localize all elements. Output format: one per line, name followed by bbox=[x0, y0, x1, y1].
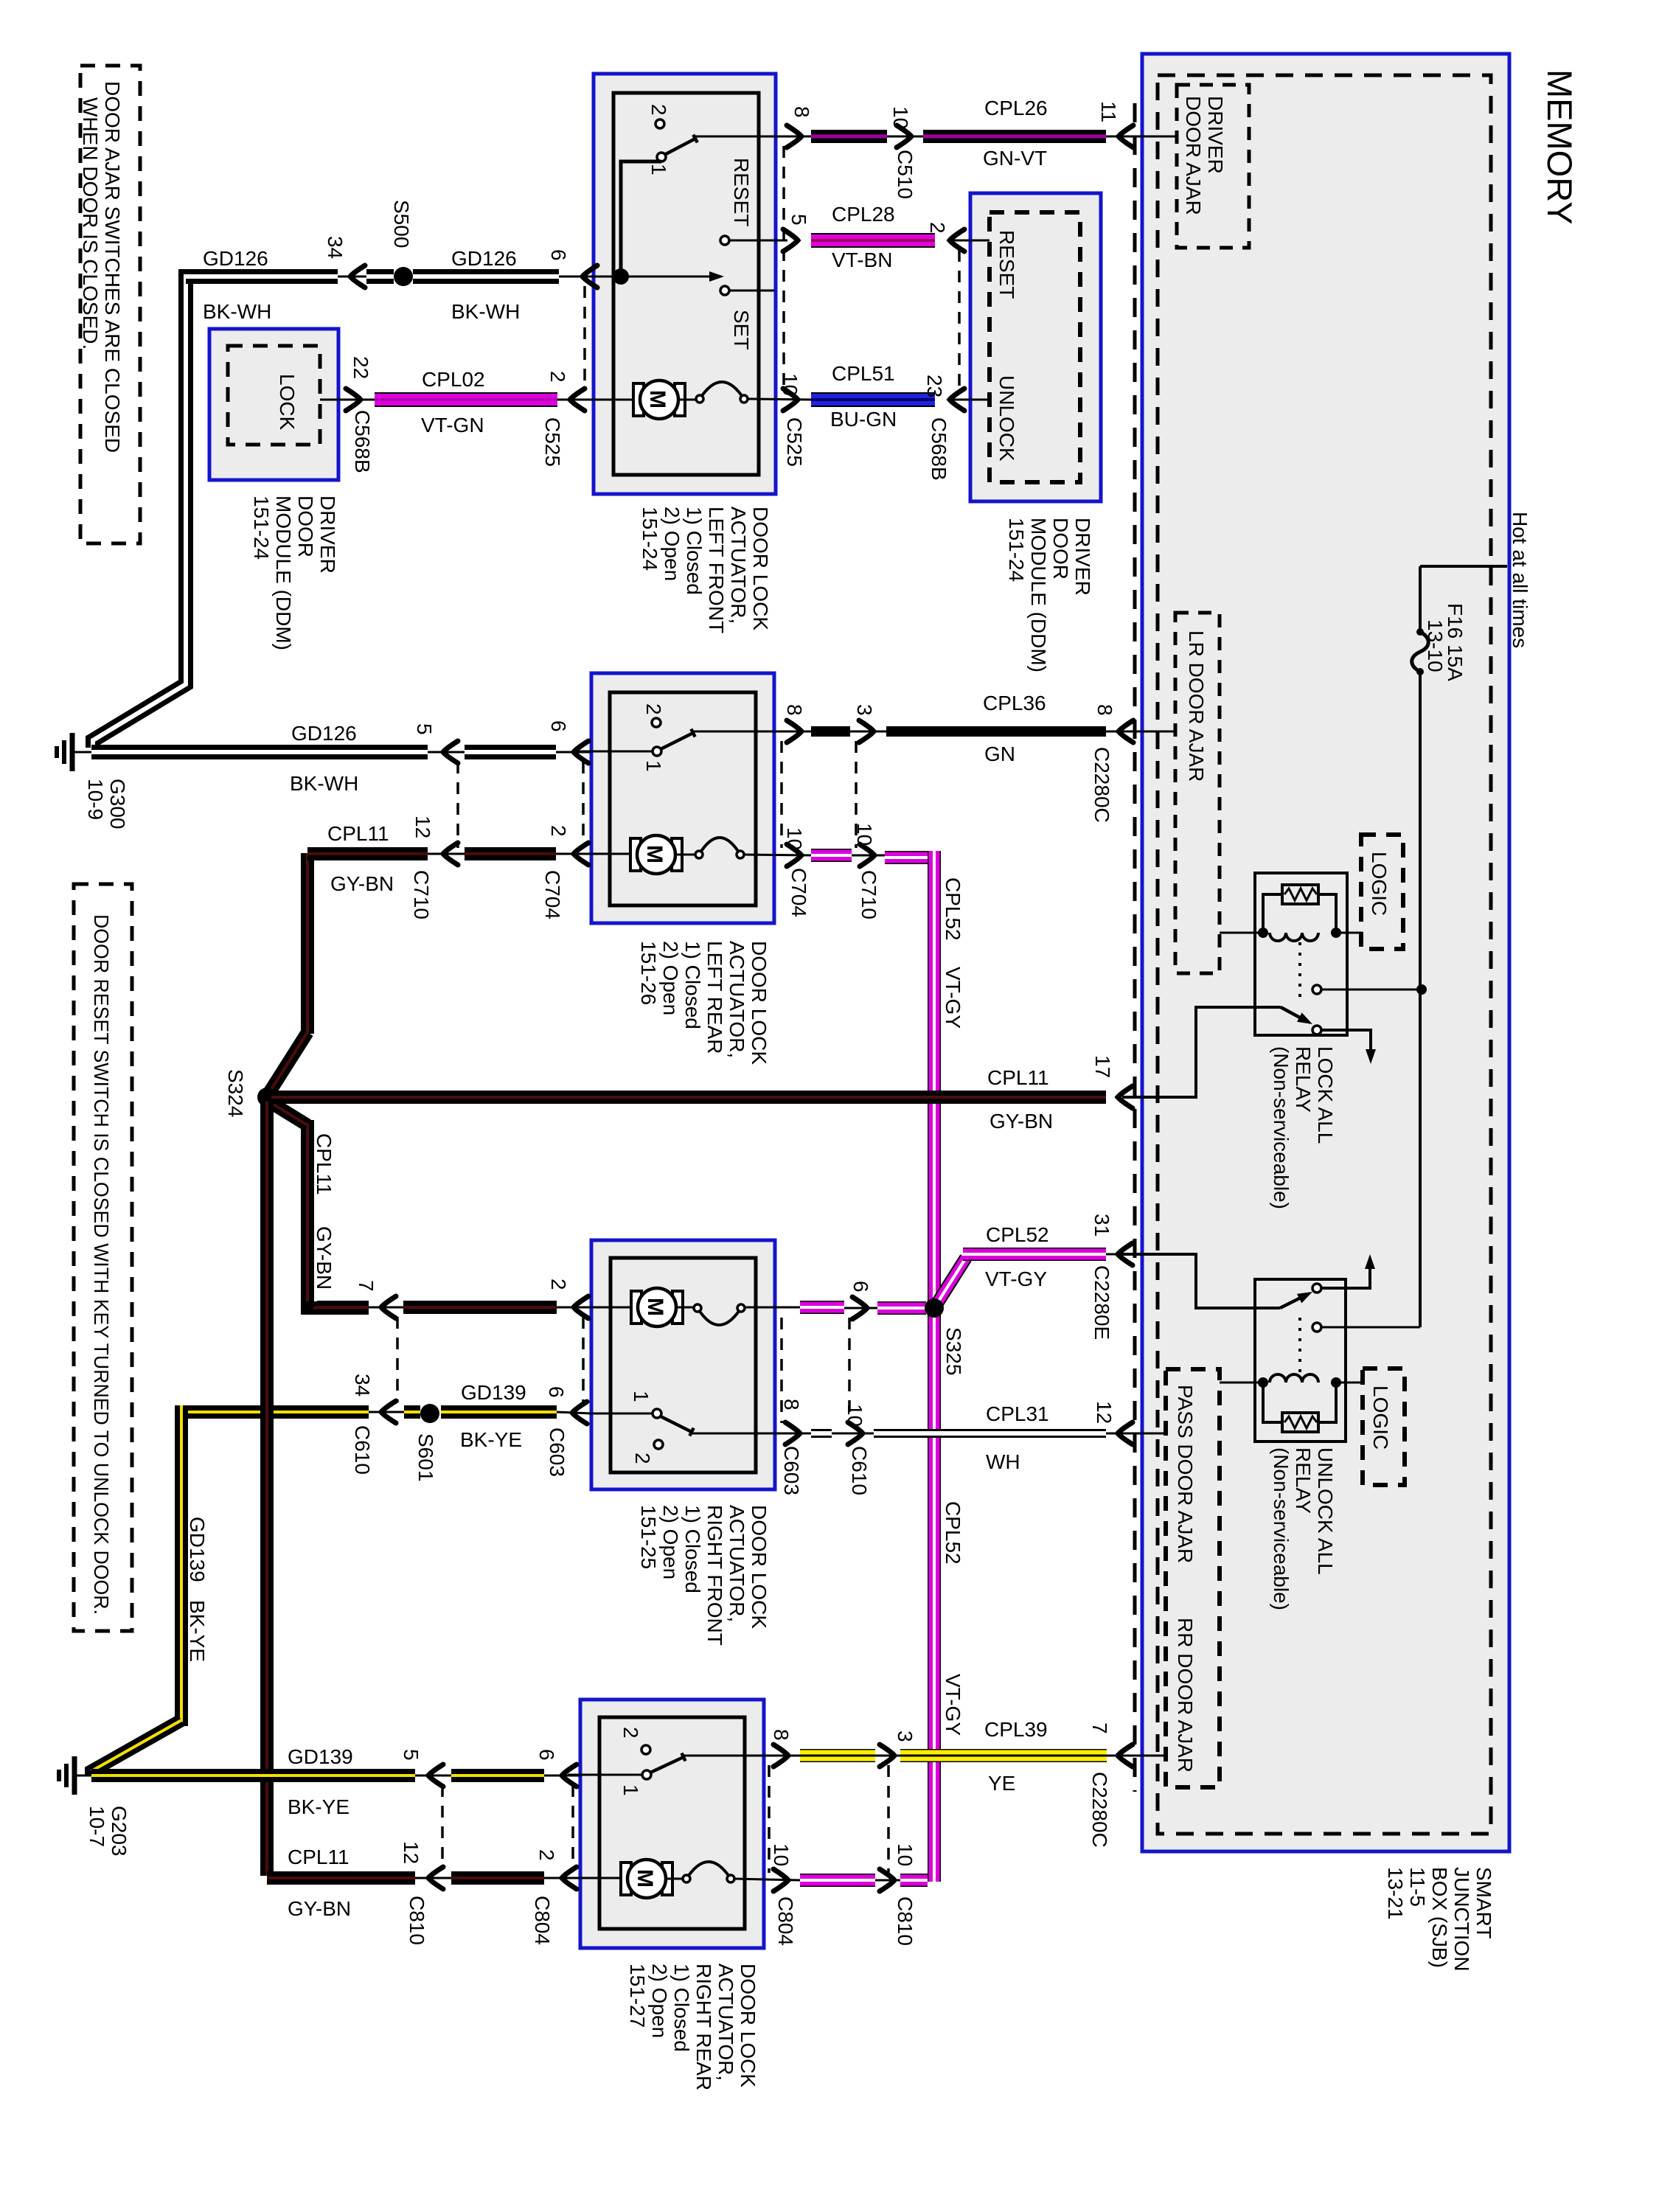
svg-text:2: 2 bbox=[547, 825, 570, 837]
actuator RF motor bbox=[631, 1291, 641, 1324]
svg-text:10: 10 bbox=[844, 1404, 866, 1427]
svg-text:GD126: GD126 bbox=[203, 247, 268, 270]
wire CPL52 VT-GY stub band row4 bbox=[800, 1874, 875, 1887]
connector C704 dashed row2 bbox=[582, 762, 585, 848]
svg-text:RIGHT FRONT: RIGHT FRONT bbox=[703, 1505, 726, 1646]
pin 6 arrow into actuator LF bbox=[559, 276, 594, 278]
svg-text:6: 6 bbox=[545, 1386, 568, 1398]
actuator RR switch contact 2 bbox=[641, 1745, 650, 1754]
relay UNLOCK ALL RELAY box bbox=[1255, 1279, 1346, 1441]
unlock relay NO contact and output hook bbox=[1312, 1284, 1321, 1293]
svg-text:151-25: 151-25 bbox=[637, 1505, 660, 1569]
pin 3 arrow (C710) bbox=[850, 731, 886, 733]
battery feed wire from SJB edge bbox=[1420, 565, 1507, 568]
svg-text:GD139: GD139 bbox=[186, 1517, 209, 1582]
svg-text:151-24: 151-24 bbox=[639, 507, 661, 571]
svg-text:CPL11: CPL11 bbox=[313, 1133, 335, 1195]
svg-text:CPL28: CPL28 bbox=[832, 203, 895, 226]
pin 2 arrow into actuator RR motor (C804) bbox=[544, 1877, 580, 1879]
SJB inner dashed boundary bbox=[1158, 75, 1491, 1834]
svg-text:RESET: RESET bbox=[730, 158, 753, 226]
pin 17 arrow into SJB (lock relay) bbox=[1118, 1086, 1133, 1108]
svg-text:10: 10 bbox=[779, 373, 801, 396]
svg-text:10-7: 10-7 bbox=[86, 1806, 108, 1847]
wire CPL11 GY-BN row2 with corner down bbox=[301, 853, 314, 1034]
svg-text:CPL52: CPL52 bbox=[942, 877, 964, 941]
node DRIVER DOOR AJAR (dashed box) bbox=[1177, 85, 1249, 248]
pin 10 arrow (C510) bbox=[887, 136, 923, 138]
wire GD139 diagonal to ground bbox=[91, 1720, 181, 1775]
ground G203 bbox=[72, 1756, 77, 1795]
wire pin 23 to DDM UNLOCK bbox=[953, 399, 990, 401]
svg-text:CPL26: CPL26 bbox=[984, 97, 1048, 119]
svg-text:BK-WH: BK-WH bbox=[451, 300, 520, 323]
actuator RR motor bbox=[621, 1863, 631, 1895]
svg-text:(Non-serviceable): (Non-serviceable) bbox=[1270, 1447, 1293, 1610]
lock relay actuation dotted link bbox=[1298, 942, 1301, 999]
svg-text:CPL11: CPL11 bbox=[288, 1846, 349, 1868]
actuator LF SET contact bbox=[720, 286, 729, 295]
pin 12 arrow (C810) bbox=[415, 1877, 451, 1879]
svg-text:DOOR LOCK: DOOR LOCK bbox=[748, 941, 771, 1065]
actuator LF switch output wire to pin 8 bbox=[695, 136, 811, 138]
wire GD139 BK-YE row3 from corner bbox=[181, 1405, 369, 1419]
wire lock relay coil to LOGIC bbox=[1340, 932, 1363, 934]
pin 8 arrow from actuator RR switch (C804) bbox=[773, 1745, 788, 1767]
wire CPL26 GN-VT main band bbox=[923, 130, 1106, 143]
actuator LF switch pivot contact 1 bbox=[657, 153, 666, 161]
node PASS DOOR AJAR / RR DOOR AJAR (dashed box) bbox=[1166, 1369, 1220, 1787]
svg-text:11-5: 11-5 bbox=[1406, 1867, 1429, 1907]
wire CPL52 VT-GY band to pin 31 bbox=[963, 1248, 1106, 1261]
svg-text:C525: C525 bbox=[541, 417, 564, 467]
relay LOCK ALL RELAY box bbox=[1255, 873, 1347, 1035]
svg-text:C710: C710 bbox=[858, 870, 880, 919]
wire CPL02 VT-GN band bbox=[375, 392, 557, 407]
svg-text:2) Open: 2) Open bbox=[648, 1964, 671, 2038]
connector C568B dashed bbox=[958, 250, 961, 391]
connector dashed between 3 and 10 (right side row2) bbox=[855, 741, 858, 848]
svg-text:RR DOOR AJAR: RR DOOR AJAR bbox=[1174, 1618, 1197, 1773]
wire RR arc to pin 10 (right) bbox=[734, 1879, 800, 1880]
unlock relay armature bbox=[1280, 1295, 1307, 1308]
svg-text:S325: S325 bbox=[942, 1327, 965, 1375]
wire CPL36 GN band bbox=[886, 726, 1106, 737]
door lock actuator right front box bbox=[591, 1240, 775, 1489]
wire GD126 BK-WH vertical from corner to G300 bbox=[93, 276, 335, 748]
pin 5 arrow (C810) bbox=[415, 1775, 451, 1777]
wire CPL31 WH stub bbox=[811, 1429, 832, 1438]
svg-text:2: 2 bbox=[647, 104, 670, 116]
svg-text:WH: WH bbox=[986, 1450, 1020, 1473]
svg-text:C603: C603 bbox=[546, 1427, 568, 1477]
connector C810 dashed row4 bbox=[441, 1785, 444, 1869]
ground G300 bbox=[70, 733, 75, 771]
svg-text:VT-GY: VT-GY bbox=[985, 1267, 1047, 1290]
actuator LR common wire to pin 6 bbox=[575, 751, 653, 753]
svg-text:GD126: GD126 bbox=[451, 247, 517, 270]
svg-text:C810: C810 bbox=[406, 1896, 428, 1945]
actuator RF common wire to pin 6 (left) bbox=[591, 1413, 653, 1415]
svg-text:Hot at all times: Hot at all times bbox=[1509, 512, 1531, 648]
wire unlock relay coil to LOGIC bbox=[1340, 1382, 1363, 1384]
svg-text:1: 1 bbox=[630, 1391, 653, 1402]
wire stub to S601 bbox=[404, 1405, 420, 1419]
door lock actuator left rear box bbox=[591, 673, 774, 923]
svg-text:CPL52: CPL52 bbox=[942, 1501, 964, 1565]
svg-text:1: 1 bbox=[642, 760, 665, 772]
wire GD126 BK-WH row1 band bbox=[186, 269, 338, 284]
svg-text:RIGHT REAR: RIGHT REAR bbox=[692, 1964, 715, 2090]
svg-text:WHEN DOOR IS CLOSED.: WHEN DOOR IS CLOSED. bbox=[79, 97, 102, 349]
svg-text:11: 11 bbox=[1097, 101, 1120, 122]
wire GD126 BK-WH row1 band 2 bbox=[413, 269, 559, 284]
unlock relay common contact bbox=[1312, 1323, 1321, 1332]
wire CPL11 row2 band2 bbox=[465, 847, 556, 860]
svg-text:C610: C610 bbox=[351, 1425, 374, 1475]
svg-text:VT-GY: VT-GY bbox=[942, 967, 964, 1029]
wire VT-GY stub from actuator RF motor bbox=[800, 1301, 844, 1314]
svg-text:CPL52: CPL52 bbox=[986, 1223, 1049, 1246]
actuator RF switch contact 2 bbox=[654, 1440, 663, 1449]
actuator LR motor bbox=[630, 838, 641, 871]
svg-text:RELAY: RELAY bbox=[1292, 1447, 1315, 1514]
wire PASS door ajar to unlock relay coil bbox=[1220, 1382, 1259, 1384]
svg-text:M: M bbox=[633, 1869, 657, 1888]
splice S325 bbox=[925, 1298, 944, 1318]
driver door module LOCK box bbox=[209, 329, 338, 480]
wire LR arc to pin 10 (right) bbox=[744, 855, 811, 855]
unlock relay actuation dotted link bbox=[1298, 1318, 1301, 1373]
svg-text:2: 2 bbox=[642, 703, 665, 715]
svg-text:5: 5 bbox=[413, 723, 436, 735]
wire CPL39 YE stub band bbox=[800, 1749, 875, 1762]
pin 10 arrow label C603/C610 dashed bbox=[848, 1318, 851, 1423]
wire CPL11 row3 band2 bbox=[403, 1301, 557, 1314]
svg-text:DRIVER: DRIVER bbox=[1071, 518, 1094, 596]
svg-text:8: 8 bbox=[770, 1729, 793, 1741]
svg-text:31: 31 bbox=[1091, 1214, 1113, 1237]
svg-text:CPL31: CPL31 bbox=[986, 1402, 1049, 1425]
actuator LR switch pivot contact 1 bbox=[653, 747, 661, 756]
actuator LR mechanical arc link bbox=[675, 854, 696, 856]
svg-text:DOOR LOCK: DOOR LOCK bbox=[748, 1505, 771, 1629]
svg-text:LOCK ALL: LOCK ALL bbox=[1314, 1046, 1337, 1144]
svg-text:(Non-serviceable): (Non-serviceable) bbox=[1270, 1046, 1293, 1209]
node LR DOOR AJAR (dashed box) bbox=[1175, 613, 1220, 973]
svg-text:S324: S324 bbox=[224, 1069, 247, 1117]
svg-text:13-21: 13-21 bbox=[1384, 1867, 1407, 1920]
svg-text:M: M bbox=[643, 1298, 667, 1316]
wire CPL26 GN-VT stub band bbox=[811, 130, 887, 143]
wire GD139 BK-YE row3 band2 bbox=[441, 1405, 557, 1419]
wire motor to pin 2 (left) bbox=[594, 399, 633, 401]
pin 6 arrow into actuator RR (C804) bbox=[544, 1775, 580, 1777]
pin 31 arrow into SJB (C2280E) bbox=[1106, 1253, 1196, 1256]
svg-text:C525: C525 bbox=[783, 417, 806, 467]
svg-text:2) Open: 2) Open bbox=[659, 941, 682, 1015]
svg-text:VT-BN: VT-BN bbox=[832, 248, 892, 271]
wire pin 2 to DDM RESET bbox=[953, 240, 990, 242]
wire CPL51 BU-GN band bbox=[811, 392, 935, 407]
wire CPL52 VT-GY band to vertical corner bbox=[900, 1874, 928, 1887]
door lock actuator left front box bbox=[594, 74, 776, 494]
svg-text:GY-BN: GY-BN bbox=[288, 1897, 351, 1920]
svg-text:VT-GN: VT-GN bbox=[421, 414, 484, 437]
svg-text:MEMORY: MEMORY bbox=[1540, 69, 1579, 225]
svg-text:GY-BN: GY-BN bbox=[990, 1110, 1053, 1133]
pin 8 arrow into SJB LR DOOR AJAR (C2280C) bbox=[1106, 731, 1175, 733]
svg-text:GD139: GD139 bbox=[461, 1381, 526, 1404]
actuator LF RESET contact bbox=[720, 236, 729, 245]
connector C804 dashed row4 bbox=[571, 1785, 574, 1869]
svg-text:RELAY: RELAY bbox=[1292, 1046, 1315, 1113]
svg-text:34: 34 bbox=[351, 1374, 374, 1397]
svg-text:CPL11: CPL11 bbox=[987, 1066, 1049, 1089]
svg-text:BOX (SJB): BOX (SJB) bbox=[1428, 1867, 1451, 1968]
wire CPL11 GY-BN row3: vertical from S324 and band bbox=[301, 1120, 314, 1301]
pin 34 arrow (C610) bbox=[369, 1411, 404, 1413]
actuator LF switch common L-wire bbox=[621, 161, 661, 273]
svg-text:13-10: 13-10 bbox=[1424, 619, 1447, 672]
wire CPL52 VT-GY stub band bbox=[811, 849, 852, 862]
svg-text:LEFT REAR: LEFT REAR bbox=[703, 941, 726, 1054]
junction dot at lock relay feed bbox=[1416, 984, 1427, 995]
wire S324 to CPL11 pin 17 band bbox=[271, 1091, 1106, 1104]
svg-text:GN: GN bbox=[984, 742, 1015, 765]
svg-text:LR DOOR AJAR: LR DOOR AJAR bbox=[1185, 630, 1208, 782]
svg-text:6: 6 bbox=[547, 249, 570, 261]
wire CPL39 YE band bbox=[900, 1749, 1107, 1762]
svg-text:1) Closed: 1) Closed bbox=[683, 507, 706, 595]
svg-text:C810: C810 bbox=[894, 1896, 917, 1946]
pin 2 arrow into actuator LR motor (C704) bbox=[556, 853, 591, 855]
wire LOCK to pin 22 bbox=[320, 399, 375, 401]
pin 6 arrow into actuator LR (C704) bbox=[556, 751, 591, 754]
svg-text:2) Open: 2) Open bbox=[659, 1505, 682, 1579]
svg-text:10: 10 bbox=[770, 1843, 793, 1866]
svg-text:1: 1 bbox=[619, 1784, 642, 1796]
connector C525 dashed (left of actuator LF) bbox=[583, 286, 586, 391]
wire S324 diagonal down to row3 vertical bbox=[269, 1102, 307, 1125]
wire GD139 vertical down to G203 bbox=[175, 1405, 188, 1726]
wire GD126 row2 band2 bbox=[465, 745, 556, 759]
svg-text:BK-WH: BK-WH bbox=[290, 772, 358, 795]
svg-text:10: 10 bbox=[894, 1843, 917, 1866]
svg-text:CPL11: CPL11 bbox=[327, 822, 389, 845]
svg-text:3: 3 bbox=[853, 704, 876, 716]
svg-text:C804: C804 bbox=[531, 1896, 554, 1945]
smart junction box (SJB) outline bbox=[1142, 54, 1509, 1851]
svg-text:8: 8 bbox=[1093, 704, 1116, 716]
wire unlock relay to CPL52 pin 31 bbox=[1122, 1254, 1280, 1308]
feed wire from fuse to relays bbox=[1419, 672, 1422, 1327]
pin 10 arrow from actuator RR motor (C804) bbox=[773, 1869, 788, 1891]
svg-text:2) Open: 2) Open bbox=[661, 507, 684, 581]
actuator LR switch contact 2 bbox=[652, 718, 661, 727]
svg-text:MODULE (DDM): MODULE (DDM) bbox=[1027, 518, 1050, 672]
wire S324 vertical down bbox=[260, 1102, 274, 1876]
svg-text:10: 10 bbox=[783, 827, 806, 850]
svg-text:DOOR LOCK: DOOR LOCK bbox=[749, 507, 772, 630]
pin 2 arrow into DDM RESET (C568B) bbox=[950, 229, 964, 251]
svg-text:M: M bbox=[642, 845, 667, 863]
svg-text:DRIVER: DRIVER bbox=[316, 495, 339, 574]
svg-text:8: 8 bbox=[783, 704, 806, 716]
svg-text:2: 2 bbox=[547, 1279, 570, 1290]
svg-text:6: 6 bbox=[849, 1281, 872, 1293]
wire CPL11 diagonal into S324 bbox=[269, 1032, 307, 1093]
svg-text:C603: C603 bbox=[780, 1446, 803, 1495]
svg-text:10: 10 bbox=[889, 106, 912, 129]
actuator LF motor bbox=[633, 383, 644, 416]
actuator LF common wire to pin 6 bbox=[582, 276, 621, 278]
pin 3 arrow (C810) bbox=[875, 1755, 900, 1757]
wire CPL11 row4 band2 bbox=[451, 1871, 544, 1885]
svg-text:BK-WH: BK-WH bbox=[203, 300, 271, 323]
actuator LR switch output wire to pin 8 bbox=[693, 731, 811, 733]
svg-text:34: 34 bbox=[324, 236, 347, 259]
actuator LF switch contact 2 bbox=[655, 119, 664, 128]
pin 7 arrow (C610) bbox=[369, 1307, 403, 1309]
unlock relay resistor bbox=[1282, 1413, 1318, 1432]
actuator RR common wire to pin 6 bbox=[568, 1774, 642, 1776]
connector C2280 dashed boundary line bbox=[1133, 103, 1137, 1792]
connector C525 dashed (right of actuator LF) bbox=[782, 146, 785, 391]
svg-text:151-27: 151-27 bbox=[626, 1964, 649, 2028]
svg-text:C2280C: C2280C bbox=[1088, 1772, 1111, 1848]
svg-text:C2280C: C2280C bbox=[1091, 747, 1113, 823]
connector C710 dashed row2 bbox=[456, 762, 459, 848]
wire GD139 row4 band2 bbox=[451, 1769, 544, 1782]
unlock relay resistor leads bbox=[1263, 1382, 1282, 1422]
wire GD139 BK-YE row4 bbox=[74, 1775, 91, 1777]
svg-text:10-9: 10-9 bbox=[84, 779, 107, 820]
wire LR motor to pin 2 (left) bbox=[575, 853, 630, 855]
svg-text:8: 8 bbox=[780, 1399, 803, 1411]
svg-text:GN-VT: GN-VT bbox=[983, 147, 1047, 170]
svg-text:5: 5 bbox=[400, 1749, 422, 1761]
svg-text:DOOR AJAR: DOOR AJAR bbox=[1182, 96, 1205, 215]
svg-text:22: 22 bbox=[349, 356, 372, 379]
svg-text:LOCK: LOCK bbox=[276, 374, 299, 431]
pin 7 arrow into SJB RR DOOR AJAR (C2280C) bbox=[1107, 1755, 1166, 1757]
svg-text:C610: C610 bbox=[848, 1446, 871, 1495]
pin 22 arrow from LOCK bbox=[346, 389, 361, 411]
svg-text:1) Closed: 1) Closed bbox=[670, 1964, 693, 2052]
svg-text:GY-BN: GY-BN bbox=[313, 1226, 335, 1290]
pin 10 arrow (C610) bbox=[832, 1433, 874, 1435]
splice S601 bbox=[420, 1404, 439, 1423]
note: DOOR AJAR SWITCHES ARE CLOSED WHEN DOOR IS CLOSED bbox=[80, 66, 140, 543]
wire CPL31 WH band bbox=[874, 1429, 1106, 1438]
svg-text:CPL36: CPL36 bbox=[983, 692, 1046, 714]
svg-text:ACTUATOR,: ACTUATOR, bbox=[726, 941, 748, 1058]
wire CPL52 vertical below S325 bbox=[928, 1315, 941, 1882]
svg-text:PASS DOOR AJAR: PASS DOOR AJAR bbox=[1174, 1385, 1197, 1563]
svg-text:C704: C704 bbox=[541, 870, 564, 919]
svg-text:JUNCTION: JUNCTION bbox=[1450, 1867, 1473, 1972]
svg-text:12: 12 bbox=[1093, 1401, 1116, 1424]
svg-text:ACTUATOR,: ACTUATOR, bbox=[726, 1505, 748, 1622]
svg-text:BK-YE: BK-YE bbox=[288, 1795, 349, 1818]
svg-text:DOOR LOCK: DOOR LOCK bbox=[737, 1964, 759, 2087]
wire SET contact to box edge bbox=[729, 290, 774, 292]
svg-text:SET: SET bbox=[730, 310, 753, 349]
svg-text:BU-GN: BU-GN bbox=[830, 408, 897, 431]
svg-text:DOOR: DOOR bbox=[1049, 518, 1072, 580]
pin 2 arrow into actuator LF (C525) bbox=[557, 399, 594, 401]
svg-text:GD139: GD139 bbox=[288, 1745, 353, 1768]
lock relay resistor bbox=[1282, 885, 1318, 904]
svg-text:1) Closed: 1) Closed bbox=[681, 1505, 704, 1593]
wire GD126 BK-WH row2 bbox=[72, 751, 91, 754]
wire CPL52 diagonal from S325 bbox=[934, 1258, 966, 1308]
lock relay armature bbox=[1281, 1007, 1307, 1021]
svg-text:GD126: GD126 bbox=[291, 722, 357, 745]
pin 12 arrow into SJB PASS DOOR AJAR bbox=[1106, 1433, 1166, 1435]
actuator LF mechanical arc link bbox=[678, 399, 696, 401]
svg-text:BK-YE: BK-YE bbox=[460, 1428, 522, 1451]
svg-text:5: 5 bbox=[787, 214, 810, 226]
pin 10 arrow (C810) row4 bbox=[875, 1879, 900, 1882]
svg-text:SMART: SMART bbox=[1472, 1867, 1495, 1939]
actuator RR mechanical arc link bbox=[666, 1878, 683, 1880]
driver door module RESET/UNLOCK box bbox=[970, 193, 1101, 501]
pin 12 arrow (C710) bbox=[428, 853, 465, 855]
pin 8 arrow from actuator LR switch (C704) bbox=[787, 720, 801, 742]
splice S324 bbox=[257, 1088, 276, 1107]
svg-text:12: 12 bbox=[411, 815, 434, 838]
svg-text:UNLOCK ALL: UNLOCK ALL bbox=[1314, 1447, 1337, 1575]
wire RR motor to pin 2 (left) bbox=[568, 1877, 621, 1879]
node LOGIC (lock) dashed box bbox=[1361, 835, 1403, 949]
pin 5 arrow (C710) bbox=[428, 751, 465, 754]
pin 10 arrow from actuator motor (C525) bbox=[783, 389, 798, 411]
svg-text:CPL02: CPL02 bbox=[422, 368, 485, 391]
lock relay resistor leads bbox=[1263, 894, 1282, 933]
wire RF arc to pin 10 (right) bbox=[745, 1307, 800, 1309]
svg-text:C568B: C568B bbox=[351, 410, 374, 473]
svg-text:ACTUATOR,: ACTUATOR, bbox=[727, 507, 750, 624]
actuator RR switch lever bbox=[650, 1757, 684, 1773]
svg-text:17: 17 bbox=[1091, 1055, 1114, 1078]
wire CPL11 GY-BN row4 corner from S324 vertical bbox=[267, 1871, 415, 1885]
svg-text:LEFT FRONT: LEFT FRONT bbox=[705, 507, 728, 633]
unlock relay coil bbox=[1270, 1374, 1318, 1382]
svg-text:3: 3 bbox=[894, 1731, 917, 1742]
pin 6 arrow into actuator RF (C603) bbox=[557, 1412, 591, 1413]
lock relay coil bbox=[1270, 933, 1318, 941]
actuator LF junction dot bbox=[613, 268, 629, 285]
svg-text:10: 10 bbox=[853, 823, 876, 846]
svg-text:DOOR AJAR SWITCHES ARE CLOSED: DOOR AJAR SWITCHES ARE CLOSED bbox=[101, 81, 124, 453]
actuator RF switch output wire to pin 8 (right) bbox=[692, 1433, 811, 1435]
svg-text:7: 7 bbox=[355, 1280, 378, 1292]
svg-text:RESET: RESET bbox=[995, 230, 1018, 299]
svg-text:S500: S500 bbox=[390, 200, 413, 248]
actuator LF wiper feed wire with arrow bbox=[621, 276, 717, 278]
svg-text:151-26: 151-26 bbox=[637, 941, 660, 1005]
pin 2 arrow into actuator RF motor (C603) bbox=[557, 1307, 591, 1309]
actuator RF mechanical arc link bbox=[676, 1307, 694, 1309]
svg-text:C704: C704 bbox=[787, 868, 810, 917]
connector dashed right of actuator RR bbox=[768, 1765, 771, 1873]
svg-text:2: 2 bbox=[926, 222, 949, 234]
svg-text:C510: C510 bbox=[894, 150, 917, 199]
wire arc to pin 10 (right) bbox=[748, 399, 811, 400]
wire VT-GY band into S325 bbox=[877, 1301, 926, 1315]
